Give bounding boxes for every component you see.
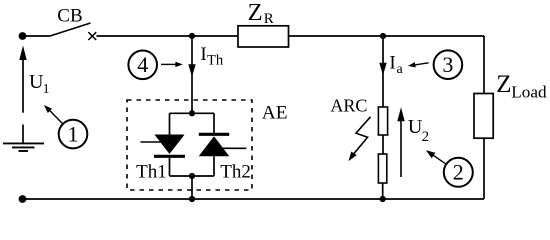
svg-text:1: 1 bbox=[68, 121, 79, 146]
svg-text:Th: Th bbox=[207, 53, 224, 69]
svg-text:I: I bbox=[200, 44, 206, 65]
svg-text:Z: Z bbox=[248, 0, 263, 26]
svg-text:a: a bbox=[397, 62, 404, 77]
svg-text:4: 4 bbox=[137, 52, 148, 77]
svg-text:3: 3 bbox=[442, 52, 453, 77]
svg-text:CB: CB bbox=[57, 6, 82, 27]
svg-text:Th1: Th1 bbox=[136, 161, 167, 182]
svg-text:ARC: ARC bbox=[330, 96, 367, 116]
svg-text:Th2: Th2 bbox=[220, 161, 251, 182]
svg-text:2: 2 bbox=[453, 160, 464, 185]
svg-text:2: 2 bbox=[422, 129, 430, 145]
svg-text:1: 1 bbox=[43, 81, 50, 96]
svg-text:Load: Load bbox=[511, 83, 547, 102]
svg-text:I: I bbox=[389, 52, 395, 73]
svg-text:R: R bbox=[264, 11, 274, 27]
svg-text:U: U bbox=[29, 71, 44, 93]
svg-text:Z: Z bbox=[496, 71, 511, 98]
svg-text:AE: AE bbox=[262, 103, 288, 124]
